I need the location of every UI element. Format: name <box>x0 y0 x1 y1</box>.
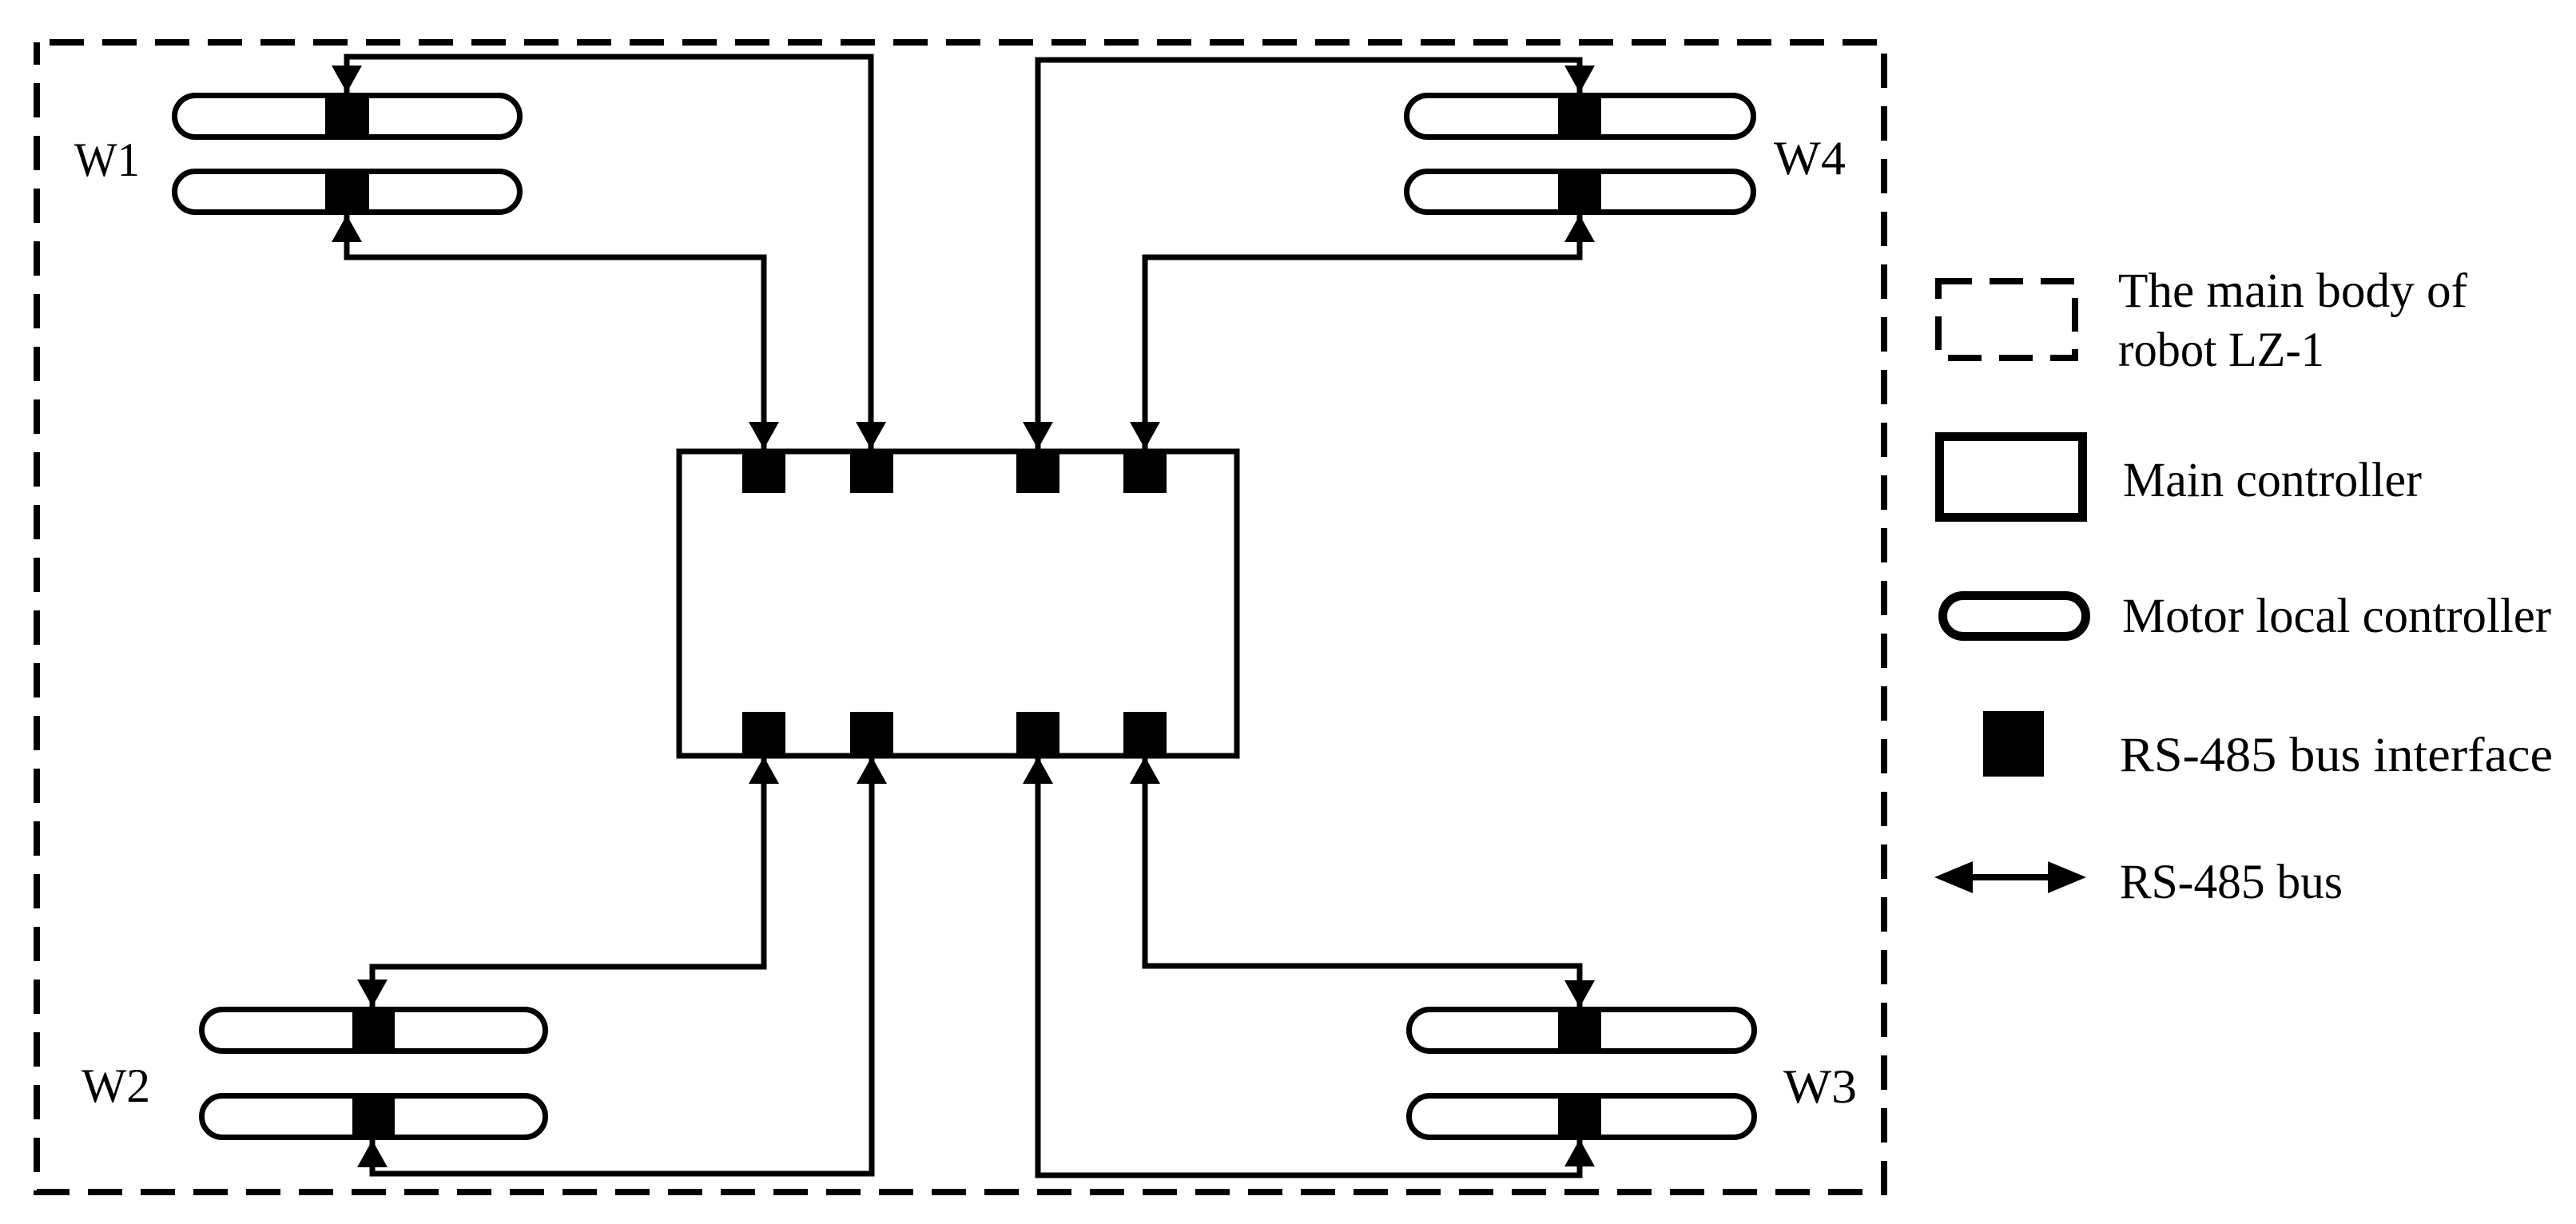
wire W3 upper to main P8 <box>1130 757 1595 1007</box>
RS-485 bus interface P5 (main bottom) <box>742 712 785 756</box>
svg-text:W2: W2 <box>81 1059 150 1112</box>
RS-485 bus interface P2 (main top) <box>850 449 893 493</box>
svg-text:W1: W1 <box>74 133 140 186</box>
motor local controller W3 upper capsule <box>1409 1010 1755 1051</box>
wire W4 upper to main P3 <box>1023 60 1595 449</box>
RS-485 bus interface on W2 lower <box>352 1093 395 1140</box>
legend main controller symbol (solid box) <box>1940 437 2083 518</box>
motor local controller W1 upper capsule <box>175 96 520 137</box>
svg-text:Motor local controller: Motor local controller <box>2122 590 2551 643</box>
RS-485 bus interface on W1 upper <box>325 93 369 140</box>
RS-485 bus interface on W1 lower <box>325 169 369 215</box>
RS-485 bus interface on W4 upper <box>1558 93 1601 140</box>
legend RS-485 bus interface symbol (black square) <box>1983 711 2044 777</box>
motor local controller W4 lower capsule <box>1407 172 1754 213</box>
RS-485 bus interface P3 (main top) <box>1016 449 1059 493</box>
svg-text:RS-485 bus: RS-485 bus <box>2120 856 2343 909</box>
wire W4 lower to main P4 <box>1130 215 1595 449</box>
svg-text:robot LZ-1: robot LZ-1 <box>2118 324 2324 377</box>
wire W3 lower to main P7 <box>1023 757 1595 1175</box>
motor local controller W4 upper capsule <box>1407 96 1754 137</box>
RS-485 bus interface P4 (main top) <box>1123 449 1167 493</box>
svg-text:The main body of: The main body of <box>2118 264 2468 318</box>
motor local controller W3 lower capsule <box>1409 1096 1755 1138</box>
legend motor local controller symbol (capsule) <box>1943 596 2086 637</box>
svg-text:W4: W4 <box>1774 132 1846 185</box>
svg-text:Main controller: Main controller <box>2123 454 2422 507</box>
motor local controller W2 lower capsule <box>202 1096 546 1138</box>
wire W2 lower to main P6 <box>357 757 887 1174</box>
RS-485 bus interface P6 (main bottom) <box>850 712 893 756</box>
RS-485 bus interface P8 (main bottom) <box>1123 712 1167 756</box>
svg-text:W3: W3 <box>1783 1060 1857 1113</box>
legend robot body symbol (dashed box) <box>1938 281 2075 358</box>
RS-485 bus interface on W3 upper <box>1558 1007 1601 1054</box>
motor local controller W2 upper capsule <box>202 1010 546 1051</box>
svg-text:RS-485 bus interface: RS-485 bus interface <box>2120 729 2553 782</box>
RS-485 bus interface on W2 upper <box>352 1007 395 1054</box>
wire W1 upper to main P2 <box>332 57 886 449</box>
wire W1 lower to main P1 <box>332 215 779 449</box>
RS-485 bus interface on W4 lower <box>1558 169 1601 215</box>
robot body dashed outline <box>37 42 1884 1192</box>
RS-485 bus interface on W3 lower <box>1558 1093 1601 1140</box>
main controller U1 <box>679 451 1237 756</box>
motor local controller W1 lower capsule <box>175 172 520 213</box>
RS-485 bus interface P7 (main bottom) <box>1016 712 1059 756</box>
RS-485 bus interface P1 (main top) <box>742 449 785 493</box>
wire W2 upper to main P5 <box>357 757 779 1007</box>
legend RS-485 bus symbol (double arrow) <box>1934 861 2086 893</box>
